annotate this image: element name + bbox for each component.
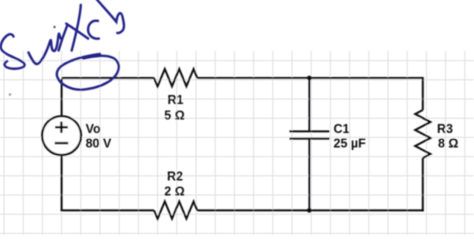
wire left bottom (source- to bottom corner) — [61, 155, 63, 212]
svg-text:25 µF: 25 µF — [334, 137, 367, 151]
resistor R1 — [154, 69, 197, 86]
capacitor C1 — [290, 131, 330, 138]
wire bottom (node B) — [61, 209, 424, 211]
wire top (node A: source+ to R1 to C1 top to R3 top) — [62, 77, 424, 79]
junction node bottom (dot) — [307, 208, 312, 213]
handwritten letter c — [88, 21, 99, 39]
wire left (source to top corner) — [61, 79, 63, 116]
wire right branch bottom — [422, 158, 424, 211]
svg-text:Vo: Vo — [86, 122, 101, 136]
voltage source Vo (circle) — [42, 116, 81, 155]
wire right branch top — [422, 78, 424, 110]
resistor R3 — [415, 110, 430, 158]
minus sign — [55, 142, 68, 144]
svg-text:8 Ω: 8 Ω — [438, 137, 458, 151]
svg-text:R2: R2 — [167, 170, 183, 184]
resistor R2 — [154, 202, 197, 219]
handwritten loop around switch location — [57, 54, 119, 90]
wire middle branch bottom (C1 to node B) — [308, 139, 310, 210]
plus sign — [55, 122, 68, 133]
svg-text:R3: R3 — [437, 122, 453, 136]
handwritten letter h — [96, 0, 124, 33]
wire middle branch top (node A to C1) — [308, 78, 310, 131]
svg-text:80 V: 80 V — [86, 136, 112, 150]
junction node top (dot) — [307, 76, 312, 81]
svg-text:R1: R1 — [168, 93, 184, 107]
handwritten letter i — [59, 26, 68, 51]
svg-text:C1: C1 — [334, 122, 350, 136]
svg-text:5 Ω: 5 Ω — [164, 109, 184, 123]
handwritten letter w — [29, 34, 62, 64]
svg-text:2 Ω: 2 Ω — [164, 185, 184, 199]
stray grey dot — [9, 93, 12, 96]
i dot — [53, 26, 55, 28]
handwritten letter t — [66, 5, 88, 51]
handwritten annotation: letter S of "Switch" — [1, 34, 25, 69]
